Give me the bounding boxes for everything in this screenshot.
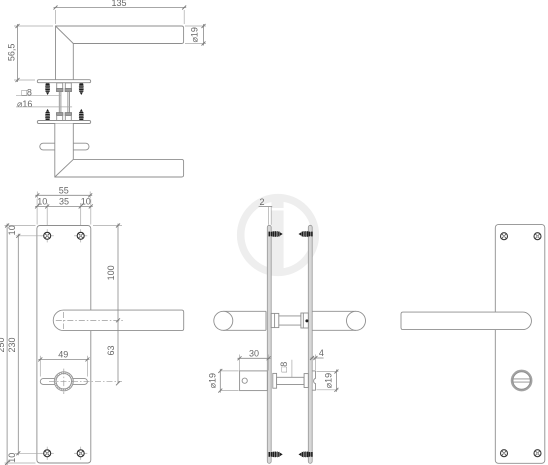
wc spindle collar left: [273, 373, 277, 388]
wood screw lower-left (pointing up): [45, 109, 50, 121]
dimension row 10 35 10: [35, 197, 93, 230]
spindle collar left: [271, 313, 279, 327]
dimension 100 right: [93, 224, 122, 323]
svg-text:56,5: 56,5: [7, 44, 17, 62]
bolt sleeve upper-left: [56, 83, 63, 121]
wc thumbturn butterfly bar: [40, 379, 87, 385]
top screw at right plate (points left): [299, 231, 313, 237]
svg-text:49: 49: [58, 350, 68, 360]
lever centerline: [56, 319, 124, 321]
spindle collar right with set-screw dot: [301, 313, 308, 328]
phillips screw top-left: [41, 229, 54, 242]
backplate rear: [495, 225, 545, 464]
wood screw lower-right (pointing up): [79, 109, 84, 121]
dimension 49: [38, 350, 89, 377]
dimension dia19 left of knob: [207, 369, 238, 393]
bottom screw at right plate (points left): [299, 451, 313, 457]
dimension 2 (plate thickness): [259, 197, 273, 225]
bottom screw at left plate (points right): [269, 451, 283, 457]
lever front view: [53, 310, 183, 331]
backplate right (edge view): [308, 225, 312, 463]
wc spindle collar right: [304, 374, 308, 388]
label dia 16: [16, 99, 72, 109]
svg-text:35: 35: [59, 197, 69, 207]
svg-text:135: 135: [111, 0, 126, 8]
svg-text:55: 55: [59, 186, 69, 196]
svg-text:230: 230: [7, 337, 17, 352]
right handle knob (side): [312, 311, 365, 330]
lever handle upper (side view): [56, 26, 184, 80]
phillips screw bottom-left: [41, 447, 54, 460]
svg-text:100: 100: [106, 265, 116, 280]
wc emergency release slot (coin slot): [512, 371, 531, 390]
neck diagonal upper: [56, 26, 74, 44]
dimension 55 (rose width): [35, 186, 92, 199]
svg-text:⌀16: ⌀16: [17, 99, 32, 109]
svg-text:250: 250: [0, 337, 6, 352]
svg-text:⌀19: ⌀19: [190, 27, 200, 42]
wc turn knob (side): [240, 371, 268, 391]
watermark logo circle: [241, 195, 316, 273]
svg-text:30: 30: [249, 348, 259, 358]
svg-text:2: 2: [259, 197, 264, 207]
spindle rod: [279, 315, 301, 317]
rose lower (edge view): [37, 121, 90, 124]
wc thumbturn bar (side view, behind stem): [40, 143, 89, 150]
svg-text:63: 63: [106, 345, 116, 355]
phillips screw top-right: [74, 229, 87, 242]
lever handle lower (side view): [55, 124, 184, 178]
svg-text:10: 10: [37, 197, 47, 207]
wc turn rosette ring (hatched): [54, 372, 73, 391]
backplate left (edge view): [267, 225, 271, 463]
svg-text:10: 10: [81, 197, 91, 207]
screw bottom-left: [501, 450, 508, 457]
rose upper (edge view): [37, 80, 90, 83]
screw top-left: [501, 233, 508, 240]
dimension dia19 right of release: [317, 370, 339, 392]
svg-text:□8: □8: [279, 362, 289, 372]
label square 8 spindle: [16, 87, 60, 97]
wc turn centerlines: [49, 380, 122, 382]
svg-text:10: 10: [7, 225, 17, 235]
left handle knob (side): [214, 311, 266, 330]
dimension 30 (turn knob length): [238, 348, 271, 370]
dimension 135 top: [54, 0, 187, 24]
dimension 63 right: [106, 320, 120, 385]
label square 8 (wc spindle): [279, 360, 292, 378]
bolt sleeve upper-right: [65, 83, 72, 121]
knob hole: [242, 378, 247, 383]
neck diagonal lower: [55, 159, 74, 177]
top screw at left plate (points right): [269, 231, 283, 237]
wood screw upper-right: [79, 83, 84, 95]
dimension 4 (release protrusion): [310, 348, 324, 370]
svg-text:⌀19: ⌀19: [324, 373, 334, 388]
lever rear view (points left): [401, 312, 531, 330]
svg-text:⌀19: ⌀19: [207, 373, 217, 388]
emergency release (side profile): [312, 371, 315, 390]
screw top-right: [534, 233, 541, 240]
wood screw upper-left: [45, 83, 50, 95]
phillips screw bottom-right: [74, 447, 87, 460]
wc spindle bar: [277, 377, 305, 384]
left dimension chain 250/230/10: [0, 224, 42, 465]
screw bottom-right: [534, 450, 541, 457]
svg-text:10: 10: [7, 453, 17, 463]
backplate front: [37, 226, 91, 464]
dimension 56.5 left: [7, 24, 53, 82]
dimension dia19 right of top lever: [185, 24, 206, 46]
svg-text:4: 4: [319, 348, 324, 358]
